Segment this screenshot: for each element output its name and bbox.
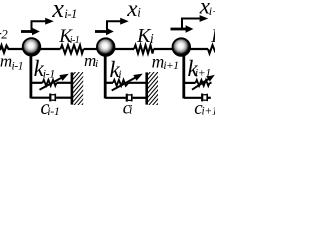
wall2 bar bbox=[145, 72, 148, 104]
bold arrow on mass2 bbox=[95, 30, 107, 33]
wire: spring Ki-2 left fragment bbox=[0, 45, 23, 52]
bold arrow on mass3 bbox=[171, 28, 187, 31]
arrow through spring ki bbox=[112, 77, 136, 90]
svg-text:i+1: i+1 bbox=[202, 105, 216, 117]
svg-text:i+1: i+1 bbox=[163, 60, 178, 72]
spring ki bbox=[113, 80, 129, 86]
coordinate arrow x i-1 (L-shape) bbox=[32, 21, 46, 33]
wire: mass2 to spring Ki bbox=[115, 48, 135, 50]
coordinate arrow x i+1 (L-shape) bbox=[182, 19, 200, 29]
damper ci+1 cup bbox=[203, 94, 208, 102]
svg-text:m: m bbox=[0, 52, 12, 71]
wall1 hatching bbox=[73, 62, 84, 116]
damper ci+1 rod right bbox=[208, 97, 211, 99]
damper ci+1 piston plate bbox=[201, 94, 203, 102]
spring Ki-1 bbox=[61, 45, 84, 53]
wire: spring Ki to mass3 bbox=[154, 48, 174, 50]
label x i+1 bbox=[199, 0, 226, 19]
label m i bbox=[84, 51, 98, 70]
label ci-1 bbox=[41, 97, 60, 119]
label m i+1 bbox=[152, 51, 179, 72]
wire: mass1 to spring Ki-1 bbox=[40, 48, 61, 50]
label ki bbox=[110, 57, 122, 82]
damper ci rod left bbox=[105, 97, 126, 99]
damper ci+1 rod left bbox=[184, 97, 202, 99]
label ci bbox=[123, 98, 133, 118]
label ki-1 bbox=[34, 56, 55, 81]
wire: spring ki+1 end bbox=[210, 82, 212, 84]
arrow through spring ki+1 bbox=[192, 79, 209, 90]
damper ci rod right bbox=[133, 97, 147, 99]
coordinate arrow x i (L-shape) bbox=[107, 21, 121, 33]
label Ki-1 bbox=[58, 26, 79, 47]
wire: mass3 to spring Ki+1 bbox=[190, 48, 208, 50]
label x i-1 bbox=[51, 0, 77, 23]
wire: stem2 to spring ki bbox=[105, 82, 113, 84]
wall1 bar bbox=[71, 72, 74, 104]
label ci+1 fragment bbox=[194, 98, 217, 119]
label ki+1 bbox=[188, 56, 211, 81]
wire: spring Ki-1 to mass2 bbox=[84, 48, 98, 50]
label Ki bbox=[136, 25, 154, 47]
label m i-1 bbox=[0, 52, 23, 73]
svg-text:i-1: i-1 bbox=[12, 60, 24, 72]
svg-text:i: i bbox=[129, 101, 133, 116]
wire: stem3 to spring ki+1 bbox=[184, 82, 196, 84]
mass m i-1 ball bbox=[23, 38, 41, 56]
spring ki+1 bbox=[196, 80, 210, 86]
svg-text:2: 2 bbox=[1, 26, 8, 41]
svg-text:i+1: i+1 bbox=[195, 67, 211, 79]
damper ci cup bbox=[128, 94, 133, 102]
damper ci piston plate bbox=[126, 94, 128, 102]
wall2 hatching bbox=[148, 62, 159, 116]
svg-text:i: i bbox=[95, 58, 98, 70]
label x i bbox=[126, 0, 141, 21]
arrow through spring ki-1 bbox=[40, 78, 63, 90]
damper ci-1 rod right bbox=[56, 97, 71, 99]
damper ci-1 cup bbox=[51, 94, 56, 102]
svg-text:m: m bbox=[152, 51, 165, 71]
svg-text:i: i bbox=[137, 5, 141, 20]
svg-text:i-1: i-1 bbox=[47, 104, 59, 118]
svg-text:i-1: i-1 bbox=[64, 6, 77, 21]
wire: stem1 to spring ki-1 bbox=[31, 82, 43, 84]
wire: spring ki to wall2 bbox=[129, 82, 147, 84]
spring ki-1 bbox=[43, 80, 57, 86]
svg-text:i: i bbox=[118, 67, 121, 81]
mass m i ball bbox=[97, 38, 115, 56]
svg-text:i+1: i+1 bbox=[209, 4, 215, 18]
svg-text:i: i bbox=[150, 32, 154, 47]
svg-text:i-1: i-1 bbox=[70, 35, 80, 46]
svg-text:K: K bbox=[210, 26, 215, 47]
wire: spring ki-1 to wall1 bbox=[57, 82, 72, 84]
spring Ki+1 right fragment bbox=[208, 45, 216, 53]
stem below mass2 bbox=[104, 52, 107, 98]
label Ki-2 fragment "-2" bbox=[0, 26, 8, 41]
mass m i+1 ball bbox=[173, 38, 191, 56]
damper ci-1 rod left bbox=[31, 97, 50, 99]
damper ci-1 piston plate bbox=[49, 94, 51, 102]
stem below mass3 bbox=[182, 52, 185, 98]
spring Ki bbox=[134, 45, 154, 53]
svg-text:i-1: i-1 bbox=[43, 66, 55, 80]
stem below mass1 bbox=[29, 52, 32, 98]
svg-text:x: x bbox=[51, 0, 64, 23]
bold arrow on mass1 bbox=[21, 30, 33, 33]
